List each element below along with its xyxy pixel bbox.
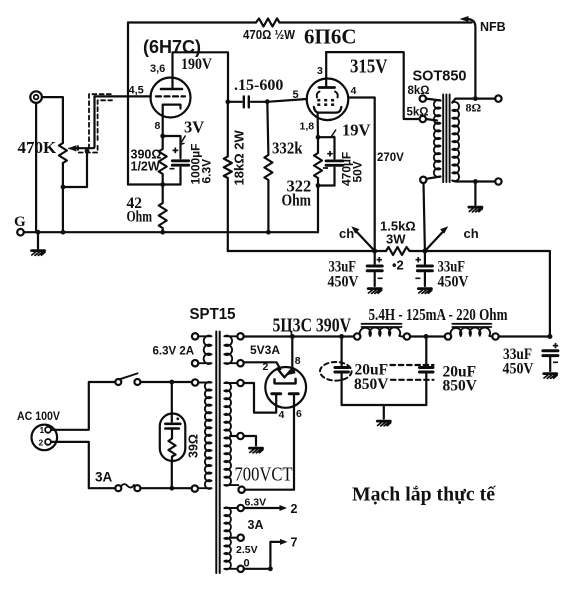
- winding AC primary: [192, 379, 198, 385]
- wire caps bottom tie: [342, 404, 426, 406]
- svg-text:19V: 19V: [342, 121, 371, 140]
- node NFB takeoff: [473, 96, 478, 101]
- wire 0 tap to 7: [244, 542, 281, 569]
- resistor 18k 2W: [224, 102, 232, 251]
- capacitor 1000uF leads: [163, 136, 181, 158]
- input jack: [30, 91, 42, 103]
- node grid resistor junction: [265, 99, 270, 104]
- wire center tap to ground: [244, 436, 256, 446]
- svg-text:1,8: 1,8: [300, 121, 315, 133]
- node rail junctions: [290, 334, 295, 339]
- wire line bottom via fuse 3A: [51, 442, 115, 488]
- ground OT secondary: [474, 182, 476, 206]
- svg-text:8Ω: 8Ω: [466, 101, 482, 115]
- svg-text:SPT15: SPT15: [190, 306, 236, 323]
- svg-text:18kΩ 2W: 18kΩ 2W: [232, 130, 247, 186]
- svg-text:450V: 450V: [503, 361, 535, 378]
- label + - 33uF left: [377, 257, 383, 278]
- wire 390V rail: [244, 335, 354, 337]
- svg-text:850V: 850V: [354, 376, 389, 393]
- wire top B+/NFB rail left segment: [128, 21, 256, 23]
- svg-text:2: 2: [263, 361, 269, 373]
- label + - cap 470uF: [323, 151, 333, 168]
- 6H7C plate bar: [161, 88, 182, 91]
- plug AC 100V: [32, 425, 58, 451]
- capacitor 20uF 850V second: [425, 337, 427, 366]
- 5Z3C filament: [277, 369, 292, 378]
- ch arrow right: [425, 230, 445, 252]
- potentiometer 470K: [59, 143, 67, 163]
- capacitor 20uF 850V first: [341, 337, 343, 366]
- transformer SPT15 core: [216, 332, 219, 574]
- svg-text:.15-600: .15-600: [234, 77, 283, 94]
- wire ground bus: [24, 231, 318, 233]
- svg-text:5Ц3C 390V: 5Ц3C 390V: [273, 315, 352, 337]
- tube 6P6C envelope: [307, 79, 349, 121]
- OT secondary winding: [452, 102, 459, 181]
- wire NFB drop to 6H7C cathode: [127, 23, 129, 185]
- winding 700VCT: [237, 380, 243, 386]
- svg-text:8: 8: [295, 355, 301, 367]
- fuse 3A: [115, 485, 121, 491]
- terminal G: [17, 229, 24, 236]
- winding filament 6.3V/2.5V: [238, 505, 244, 511]
- lamp pilot 39ohm envelope: [171, 382, 173, 422]
- wire NFB line up: [468, 19, 476, 99]
- capacitor 470uF 50V: [318, 137, 335, 158]
- wire line top via switch: [51, 382, 115, 430]
- wire top rail right segment: [280, 21, 472, 23]
- capacitor 1000uF plates: [172, 161, 188, 165]
- wire B+ feed line 270V/315V: [228, 250, 386, 252]
- arrow 3V pointer: [180, 136, 186, 145]
- svg-text:3A: 3A: [95, 470, 113, 485]
- svg-text:Mạch lắp thực tế: Mạch lắp thực tế: [352, 484, 496, 506]
- 6P6C beam plate hooks: [317, 92, 338, 98]
- svg-text:5.4H - 125mA - 220 Ohm: 5.4H - 125mA - 220 Ohm: [369, 305, 508, 324]
- svg-text:8kΩ: 8kΩ: [408, 85, 430, 97]
- svg-text:2: 2: [39, 438, 44, 448]
- shielded cable dashed outline: [78, 94, 112, 152]
- OT primary tap terminals 8k 5k: [420, 95, 426, 101]
- svg-text:850V: 850V: [443, 378, 478, 395]
- svg-text:6.3V: 6.3V: [200, 159, 214, 184]
- OT primary bottom terminal: [426, 177, 440, 179]
- svg-text:2: 2: [291, 502, 298, 516]
- node shield/pot junction: [85, 149, 90, 154]
- svg-text:315V: 315V: [350, 57, 388, 78]
- 6P6C plate lead and bar: [325, 52, 327, 87]
- capacitor 33uF 450V left: [374, 251, 376, 264]
- svg-text:3,6: 3,6: [150, 63, 165, 75]
- wire plate to OT 5k tap: [326, 52, 419, 119]
- svg-text:•2: •2: [392, 258, 404, 273]
- svg-text:3A: 3A: [248, 518, 264, 532]
- svg-text:450V: 450V: [438, 274, 470, 291]
- svg-text:SOT850: SOT850: [413, 69, 467, 85]
- resistor 1.5k 3W: [386, 247, 410, 255]
- svg-text:ch: ch: [339, 226, 354, 241]
- svg-text:5kΩ: 5kΩ: [407, 107, 429, 119]
- svg-text:8: 8: [155, 120, 161, 132]
- svg-text:6: 6: [296, 408, 302, 420]
- node 270V junction: [372, 249, 377, 254]
- dashed pairing lines: [391, 364, 434, 366]
- node secondary ground junction: [473, 179, 478, 184]
- svg-text:0: 0: [244, 558, 250, 570]
- svg-text:39Ω: 39Ω: [187, 434, 201, 458]
- wire screen pin4 to 270V node: [348, 98, 374, 252]
- resistor 322 Ohm cathode: [314, 137, 322, 185]
- svg-text:4,5: 4,5: [129, 85, 144, 97]
- 6H7C grid dashes: [156, 95, 185, 97]
- wire shield ground drain: [63, 151, 87, 187]
- svg-text:AC 100V: AC 100V: [17, 409, 60, 423]
- svg-text:6.3V: 6.3V: [245, 497, 267, 509]
- 5Z3C bar electrode: [275, 379, 296, 384]
- label + - 33uF right: [415, 257, 421, 278]
- svg-text:1/2W: 1/2W: [131, 160, 160, 174]
- label + - cap 1000uF: [170, 148, 179, 169]
- switch: [115, 379, 121, 385]
- svg-text:190V: 190V: [181, 56, 213, 73]
- svg-text:3V: 3V: [184, 118, 204, 137]
- wire 6.3V tap arrow to 2: [244, 507, 281, 509]
- svg-text:3W: 3W: [386, 232, 406, 247]
- resistor 470ohm 1/2W zigzag: [256, 19, 280, 27]
- wire cathode bottom line: [128, 183, 181, 185]
- capacitor 33uF 450V right: [424, 251, 426, 264]
- tube 5Z3C rectifier envelope: [265, 367, 306, 408]
- wire grid lead to 6H7C pins 4,5: [95, 95, 151, 97]
- svg-text:470Ω ½W: 470Ω ½W: [243, 28, 295, 42]
- winding 6.3V 2A: [192, 333, 198, 339]
- wire secondary bottom: [452, 180, 495, 183]
- winding 5V3A: [237, 333, 243, 339]
- 6P6C grid dots row1: [317, 99, 334, 106]
- svg-text:Ohm: Ohm: [282, 191, 312, 210]
- svg-text:6.3V 2A: 6.3V 2A: [153, 346, 195, 358]
- choke 2 5.4H: [445, 333, 451, 339]
- node bus junctions: [36, 230, 41, 235]
- svg-text:50V: 50V: [351, 161, 365, 182]
- wire OT primary bottom to 315V node: [424, 183, 425, 251]
- label + - final cap: [553, 343, 558, 362]
- wire secondary top to 8ohm terminal: [452, 99, 495, 103]
- capacitor 33uF 450V final: [543, 351, 558, 356]
- dashed ellipse around first 20uF: [320, 362, 352, 381]
- 6P6C cathode lead: [317, 113, 320, 138]
- capacitor .15-600 coupling: [228, 101, 242, 103]
- svg-text:7: 7: [291, 536, 298, 550]
- svg-text:450V: 450V: [328, 274, 360, 291]
- wire jack to pot: [42, 97, 63, 143]
- svg-text:Ohm: Ohm: [127, 209, 153, 226]
- svg-text:700VCT: 700VCT: [235, 464, 293, 486]
- node 6H7C cathode junction: [160, 134, 165, 139]
- wire pin 4 to 700V top: [244, 383, 277, 413]
- wiper arm wire: [76, 96, 95, 148]
- svg-text:332k: 332k: [272, 139, 303, 158]
- 5Z3C plates: [272, 392, 281, 395]
- node 6P6C cathode junction: [316, 135, 321, 140]
- 6H7C cathode: [163, 105, 181, 136]
- wire cathode to ground bus: [317, 186, 319, 233]
- svg-text:5: 5: [293, 89, 299, 101]
- svg-text:5V3A: 5V3A: [250, 343, 280, 357]
- 6P6C cathode: [314, 107, 341, 113]
- svg-text:470K: 470K: [18, 138, 58, 157]
- svg-text:NFB: NFB: [480, 20, 506, 34]
- wire pin 2 from 5V winding: [244, 362, 281, 369]
- resistor 332k grid leak: [264, 102, 272, 233]
- node coupling left junction: [225, 99, 230, 104]
- svg-text:(6H7C): (6H7C): [143, 37, 201, 57]
- resistor 39ohm inside lamp: [168, 429, 175, 461]
- svg-text:1: 1: [40, 425, 45, 435]
- lamp electrodes: [165, 422, 180, 425]
- resistor 42 Ohm: [159, 185, 167, 233]
- resistor 390ohm cathode: [159, 136, 167, 185]
- OT core: [443, 95, 449, 183]
- wire pin 6 to 700V bottom: [245, 394, 294, 490]
- wire 6H7C plate up/over to coupling node: [173, 52, 229, 102]
- ground: [37, 232, 39, 248]
- arrow 19V pointer: [331, 130, 336, 138]
- svg-text:3: 3: [317, 65, 323, 77]
- op... tube 6H7C envelope: [151, 78, 191, 118]
- svg-text:4: 4: [279, 409, 285, 421]
- wire pin 8 from 390V rail: [291, 337, 293, 369]
- wire jack sleeve down to ground bus: [35, 103, 37, 232]
- svg-text:270V: 270V: [377, 152, 404, 164]
- OT primary winding: [434, 100, 441, 177]
- svg-text:G: G: [14, 214, 26, 230]
- choke 1 5.4H: [354, 333, 360, 339]
- ch arrow left: [355, 230, 375, 252]
- svg-text:2.5V: 2.5V: [236, 544, 258, 556]
- svg-text:ch: ch: [464, 226, 479, 241]
- svg-text:6П6C: 6П6C: [304, 25, 357, 49]
- svg-text:4: 4: [351, 85, 357, 97]
- node lamp taps: [169, 380, 174, 385]
- node 315V junction: [422, 249, 427, 254]
